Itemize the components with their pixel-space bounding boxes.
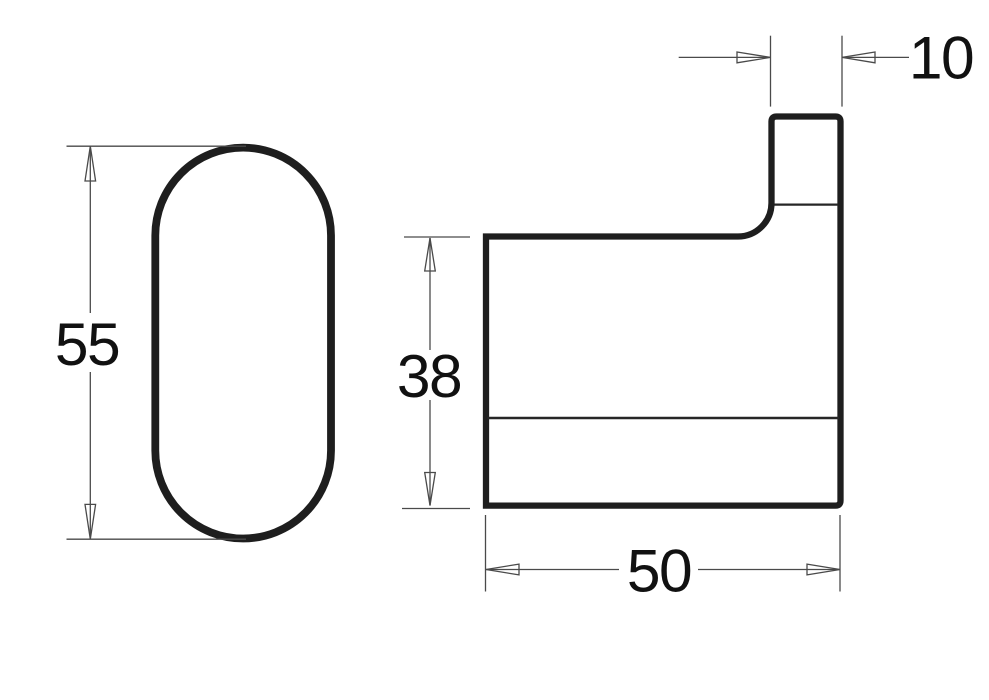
dim 50 arrow right: [807, 564, 840, 575]
dim 55 extension line bottom: [67, 538, 247, 540]
dim 38 line upper: [429, 238, 431, 350]
dim 38 arrow down: [425, 473, 436, 506]
dim 38 arrow up: [425, 238, 436, 271]
dim 38 extension line bottom: [402, 508, 470, 510]
dim 38 extension line top: [404, 236, 470, 238]
dim 10 extension line right: [841, 36, 843, 107]
dim 50 line left: [486, 569, 619, 571]
svg-text:55: 55: [55, 310, 119, 378]
front view oval outline: [155, 148, 331, 539]
dim 50 extension line left: [485, 515, 487, 592]
dim 50 arrow left: [486, 564, 519, 575]
dim 55 extension line top: [67, 145, 247, 147]
dim 50 line right: [698, 569, 840, 571]
dim 55 arrow up: [85, 146, 96, 181]
dim 10 leader left: [679, 56, 771, 58]
svg-text:10: 10: [909, 24, 973, 92]
dim 55 arrow down: [85, 504, 96, 539]
dim 50 extension line right: [839, 515, 841, 592]
dim 10 leader right: [842, 56, 909, 58]
dim 10 arrow right-pointing: [737, 52, 771, 63]
side profile outline: [486, 117, 841, 506]
dim 10 extension line left: [770, 36, 772, 107]
hook neck line: [775, 203, 839, 205]
svg-text:50: 50: [627, 537, 691, 605]
dim 55 line upper: [89, 146, 91, 313]
dim 38 line lower: [429, 400, 431, 506]
dim 55 line lower: [89, 372, 91, 539]
plate mid line: [488, 417, 840, 419]
svg-text:38: 38: [397, 342, 461, 410]
dim 10 arrow left-pointing: [842, 52, 875, 63]
